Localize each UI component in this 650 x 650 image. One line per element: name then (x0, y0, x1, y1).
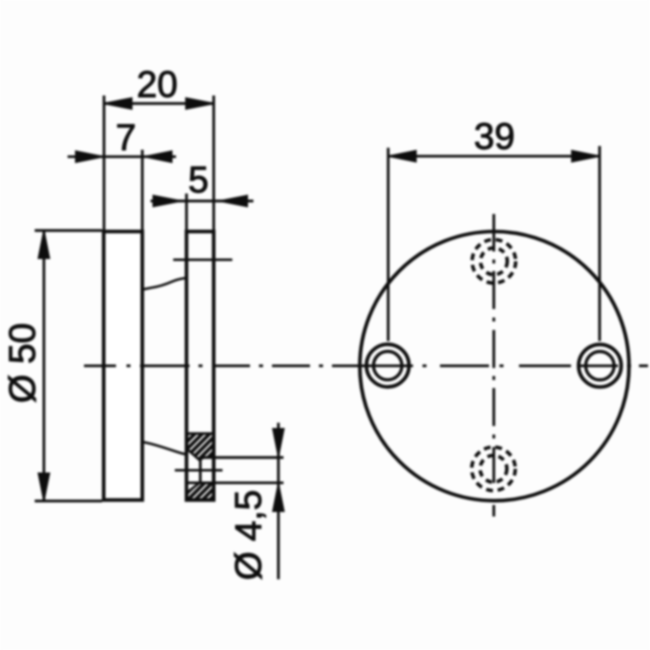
dimension 20 left arrow (106, 98, 132, 108)
right hole inner circle (586, 352, 614, 380)
cone transition line top (142, 278, 186, 290)
dimension 7 line (68, 155, 176, 158)
bottom hole outer dashed circle (472, 447, 516, 491)
dimension D50 line (43, 232, 46, 501)
dimension 20 line (104, 102, 214, 105)
side view disc outline (104, 232, 143, 501)
extension line hub left edge (185, 194, 188, 232)
dimension D4,5 extension bottom (187, 481, 284, 484)
extension line disc left edge (103, 96, 106, 232)
right hole outer circle (579, 344, 622, 387)
dimension 5 left arrow (154, 196, 180, 206)
hub section hatch lower (187, 483, 214, 500)
top hole centerline in side view (173, 258, 232, 261)
svg-text:7: 7 (116, 117, 137, 158)
left hole inner circle (374, 351, 402, 379)
dimension 39 extension right (598, 146, 601, 341)
dimension D50 extension bottom (35, 500, 102, 503)
dimension D4,5 extension top (201, 456, 284, 459)
top hole inner dashed circle (481, 248, 508, 275)
svg-text:20: 20 (137, 64, 178, 105)
dimension 7 left arrow (76, 152, 102, 162)
left hole outer circle (366, 344, 409, 387)
dimension D50 bottom arrow (39, 474, 49, 500)
dimension D4,5 bottom arrow (273, 485, 283, 511)
dimension 39 extension left (387, 148, 390, 341)
hole bore edge line (199, 459, 202, 483)
dimension 20 right arrow (186, 98, 212, 108)
svg-text:Ø 50: Ø 50 (2, 323, 43, 403)
vertical centerline of front view (492, 214, 495, 517)
dimension D50 extension top (35, 229, 102, 232)
hub countersink chamfer upper (187, 449, 204, 460)
bottom hole inner dashed circle (480, 455, 507, 482)
side view hub outline (187, 232, 214, 501)
dimension 5 line (151, 200, 254, 203)
top hole outer dashed circle (472, 239, 516, 283)
dimension 39 right arrow (572, 151, 598, 161)
dimension 39 line (388, 155, 599, 158)
hub section hatch upper break line (187, 432, 214, 435)
dimension D4,5 line (277, 423, 280, 580)
hub countersink chamfer lower (187, 483, 200, 493)
cone transition line bottom (142, 442, 187, 455)
svg-text:Ø 4,5: Ø 4,5 (228, 490, 269, 581)
main horizontal centerline (84, 364, 648, 367)
dimension 5 right arrow (221, 196, 247, 206)
dimension D50 top arrow (39, 232, 49, 258)
extension line hub right edge (212, 96, 215, 232)
hub section hatch upper (187, 434, 214, 460)
dimension D4,5 top arrow (273, 429, 283, 455)
dimension 7 right arrow (146, 152, 172, 162)
bottom hole centerline in side view (175, 469, 223, 472)
svg-text:39: 39 (474, 116, 515, 157)
svg-text:5: 5 (188, 160, 209, 201)
extension line disc right edge (141, 150, 144, 232)
dimension 39 left arrow (390, 151, 416, 161)
front view disc circle (360, 232, 629, 501)
